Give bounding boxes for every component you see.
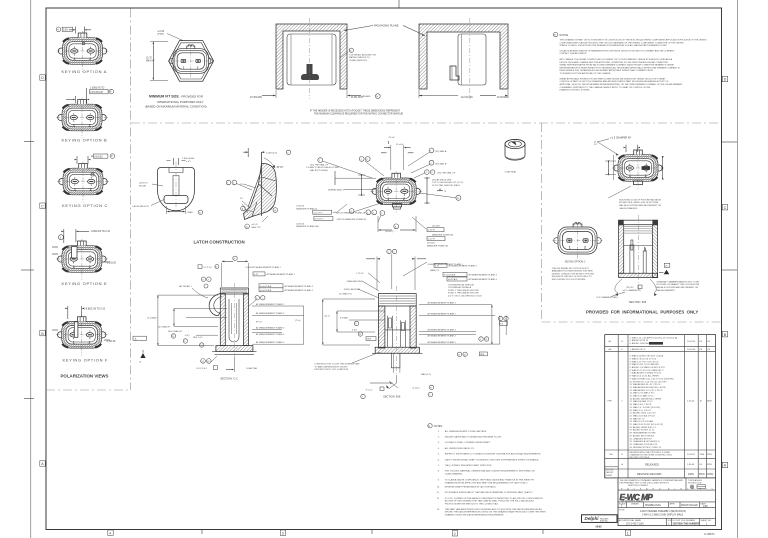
svg-text:THIS 2W SERIAL KEY OPTION IS N: THIS 2W SERIAL KEY OPTION IS NOT xyxy=(552,267,590,270)
right section S3 xyxy=(619,215,658,290)
svg-text:⊕ ⌀0.25 A B: ⊕ ⌀0.25 A B xyxy=(444,274,456,277)
svg-text:⊕ ⌀0.25 A B: ⊕ ⌀0.25 A B xyxy=(260,289,272,292)
svg-text:0.2 X 45° CORNER ON THE MATING: 0.2 X 45° CORNER ON THE MATING COMPONENT… xyxy=(445,497,543,500)
central right vertical dim xyxy=(424,177,447,204)
svg-text:REQUESTS THIS KEY OPTION USE 4: REQUESTS THIS KEY OPTION USE 4 TO xyxy=(552,276,592,278)
svg-text:6P°±2°: 6P°±2° xyxy=(256,322,263,324)
svg-text:14. WAS 12.70 MAX 1 PLC: 14. WAS 12.70 MAX 1 PLC xyxy=(630,392,656,395)
svg-text:AT MEASUREMENT PLANE 4: AT MEASUREMENT PLANE 4 xyxy=(285,289,314,292)
svg-text:1.0 MAX TO BE FLUSH A 0.25 MM: 1.0 MAX TO BE FLUSH A 0.25 MM xyxy=(306,166,339,169)
rev table column lines xyxy=(618,335,706,478)
title block row lines xyxy=(618,490,716,518)
svg-text:2 WAY (1.5 MM) CONN DISPLAY MA: 2 WAY (1.5 MM) CONN DISPLAY MALE xyxy=(642,513,684,516)
svg-text:EITHER SIDE. GATE LUGS OF FIX: EITHER SIDE. GATE LUGS OF FIXTURE xyxy=(619,201,658,204)
svg-text:MIN AND: MIN AND xyxy=(362,95,371,98)
pins xyxy=(630,245,634,273)
svg-text:6. WAS 15.75 9 PLCS 2 WAS KEY: 6. WAS 15.75 9 PLCS 2 WAS KEY C xyxy=(630,369,665,372)
svg-text:0.15 TP 2: 0.15 TP 2 xyxy=(315,219,325,221)
svg-text:REVISION RECORD: REVISION RECORD xyxy=(637,472,661,476)
svg-text:9. WAS CONTACT (1), 2.03 2 PLC: 9. WAS CONTACT (1), 2.03 2 PLCS, DELETED xyxy=(630,377,675,380)
svg-text:DO NOT FILE NUMBER: DO NOT FILE NUMBER xyxy=(673,520,696,522)
svg-text:P A C K A R D E L E C T R I C: P A C K A R D E L E C T R I C xyxy=(621,487,715,490)
dashed separator vertical right region xyxy=(541,123,543,322)
svg-text:AT MEASUREMENT PLANE 4: AT MEASUREMENT PLANE 4 xyxy=(428,335,457,338)
svg-text:7.63 MIN ALL AROUND FOR: 7.63 MIN ALL AROUND FOR xyxy=(349,53,376,56)
keying B dims xyxy=(66,87,114,103)
svg-text:CHANGED NOTES SOME CONSTRUCTIO: CHANGED NOTES SOME CONSTRUCTION xyxy=(630,453,673,456)
svg-text:2X ⌀4°: 2X ⌀4° xyxy=(389,136,396,139)
svg-text:2X ⌀0.4: 2X ⌀0.4 xyxy=(396,143,404,146)
svg-text:10-10-07: 10-10-07 xyxy=(687,341,696,343)
svg-text:0.5°4° ON #1 CBL SHROUD CYCLE: 0.5°4° ON #1 CBL SHROUD CYCLE xyxy=(448,296,483,298)
svg-text:(XX) MAX A°: (XX) MAX A° xyxy=(435,150,447,153)
central leader circles left xyxy=(306,157,384,192)
svg-text:3. WAS 1.57 TYP, 2.03 2 PLCS: 3. WAS 1.57 TYP, 2.03 2 PLCS xyxy=(630,360,659,363)
svg-text:(TYP): (TYP) xyxy=(158,34,164,36)
svg-text:2-WAY HEADER ASSEMBLY (METRI-P: 2-WAY HEADER ASSEMBLY (METRI-PACK) xyxy=(640,510,686,513)
coax seal cylinder xyxy=(505,139,526,173)
svg-text:⌀ 0.36: ⌀ 0.36 xyxy=(158,30,165,33)
svg-text:MAY ALSO EXTEND AND BE PRESENT: MAY ALSO EXTEND AND BE PRESENT ON xyxy=(656,286,698,289)
section B-B body xyxy=(372,286,423,375)
right connector H2 xyxy=(553,223,603,259)
section B-B bottom xyxy=(314,352,433,399)
svg-text:(4.5 MAX): (4.5 MAX) xyxy=(147,316,157,319)
svg-text:DESIGN, CONSULT THE KEYING OPT: DESIGN, CONSULT THE KEYING OPTIONS xyxy=(552,273,595,275)
svg-text:GAUGE READERS: GAUGE READERS xyxy=(656,289,675,292)
svg-text:KEYING OPTION A: KEYING OPTION A xyxy=(62,69,108,74)
svg-text:10-10-05: 10-10-05 xyxy=(687,349,696,351)
svg-text:1.0000 AS TD 0.10: 1.0000 AS TD 0.10 xyxy=(91,230,111,233)
rev header row xyxy=(605,467,618,478)
svg-text:AT MEASUREMENT PLANE 3: AT MEASUREMENT PLANE 3 xyxy=(469,274,498,277)
svg-text:(9.6±0.2): (9.6±0.2) xyxy=(385,231,394,233)
svg-text:LATCH MIN HT R: LATCH MIN HT R xyxy=(133,205,150,208)
svg-text:KEYING OPTION C: KEYING OPTION C xyxy=(62,203,108,208)
svg-text:(XX) AT SHOULDER: (XX) AT SHOULDER xyxy=(432,178,452,181)
svg-text:3: 3 xyxy=(282,531,284,535)
keying option A connector xyxy=(57,31,109,72)
svg-text:GREAT APPROVALS FROM BOTH GMT: GREAT APPROVALS FROM BOTH GMT PARTS (GMW… xyxy=(560,77,666,80)
svg-text:1.0000-0.05: 1.0000-0.05 xyxy=(266,153,278,155)
svg-text:KEYING OPTION B: KEYING OPTION B xyxy=(62,137,108,142)
central leader circles right xyxy=(408,148,464,200)
svg-text:THE MINIMUM CLEARANCE REQUIRED: THE MINIMUM CLEARANCE REQUIRED FOR THE M… xyxy=(314,113,403,116)
svg-text:AH: AH xyxy=(609,348,612,351)
svg-text:(BASED ON MAXIMUM MATERIAL CON: (BASED ON MAXIMUM MATERIAL CONDITION) xyxy=(145,105,207,109)
S3 dims xyxy=(596,263,700,304)
svg-text:APPD: APPD xyxy=(670,502,676,505)
svg-text:⊕ ⌀0.25 A B: ⊕ ⌀0.25 A B xyxy=(260,285,272,288)
svg-text:31. CHANGED A 2F PLACES #5: 31. CHANGED A 2F PLACES #5 xyxy=(630,440,661,443)
svg-text:CHKD: CHKD xyxy=(707,474,714,476)
H1 dims xyxy=(594,136,664,210)
keying option B connector xyxy=(56,98,108,139)
section C-C right dims xyxy=(249,296,304,345)
svg-text:ART APPROVAL NAME: ART APPROVAL NAME xyxy=(619,519,642,522)
svg-text:MAY ALSO EXTEND AND BE PRESENT: MAY ALSO EXTEND AND BE PRESENT ON xyxy=(619,204,661,207)
svg-text:AT MEASUREMENT PLANE 1: AT MEASUREMENT PLANE 1 xyxy=(428,302,457,305)
svg-text:PROTECTS BEFORE SHROUD TO THE: PROTECTS BEFORE SHROUD TO THE CLOSED FLA… xyxy=(445,502,499,505)
svg-text:8. WAS 16.3, 16.51 ALL VIEWS: 8. WAS 16.3, 16.51 ALL VIEWS xyxy=(630,375,660,378)
svg-text:FRW: FRW xyxy=(707,464,712,466)
svg-text:(7.5±): (7.5±) xyxy=(295,320,301,322)
svg-text:15357090 THIS NUMBER: 15357090 THIS NUMBER xyxy=(673,523,700,525)
svg-text:1-30-98: 1-30-98 xyxy=(687,464,695,466)
svg-text:AC: AC xyxy=(609,340,612,343)
svg-text:ANY CHANGE TO A USCAR CONTROLL: ANY CHANGE TO A USCAR CONTROLLED DOCUMEN… xyxy=(560,58,673,61)
svg-text:2. WAS 17.8 (15.75) 2 PLCS: 2. WAS 17.8 (15.75) 2 PLCS xyxy=(630,357,657,360)
top zone tick xyxy=(398,0,400,8)
latch arm on section C-C xyxy=(209,294,220,316)
svg-text:APPROVAL. FILES OF THE WITHDRA: APPROVAL. FILES OF THE WITHDRAWN REPRESE… xyxy=(560,83,683,86)
svg-text:THIRD ANGLE: THIRD ANGLE xyxy=(688,479,702,482)
svg-text:REPRESENTATIVE IS RESPONSIBLE: REPRESENTATIVE IS RESPONSIBLE FOR OBTAIN… xyxy=(560,66,681,69)
dashed separator horizontal right region bottom xyxy=(542,321,722,323)
svg-text:1. ADDED KEY F: 1. ADDED KEY F xyxy=(630,348,647,351)
svg-text:-A-: -A- xyxy=(134,338,137,341)
svg-text:DRAWN: DRAWN xyxy=(631,502,639,505)
svg-text:AT MEASUREMENT PLANE 4: AT MEASUREMENT PLANE 4 xyxy=(469,278,498,281)
zone label D right xyxy=(722,76,727,81)
delphi logo box xyxy=(582,515,618,529)
svg-text:MAY BOTTOM A-B: MAY BOTTOM A-B xyxy=(310,169,328,172)
svg-text:16.00 MIN: 16.00 MIN xyxy=(497,97,508,99)
svg-text:AT MEASUREMENT PLANE 2: AT MEASUREMENT PLANE 2 xyxy=(256,312,285,315)
svg-text:AVAILABLE FOR NEW DESIGN. FOR: AVAILABLE FOR NEW DESIGN. FOR NEW xyxy=(552,270,593,273)
svg-text:BULK MAX HT: BULK MAX HT xyxy=(168,330,183,333)
svg-text:BULGE: BULGE xyxy=(139,185,147,187)
svg-text:0.15 TP: 0.15 TP xyxy=(428,230,436,232)
svg-text:TITLE: TITLE xyxy=(619,509,625,511)
svg-text:THIS PART HAS BEEN PREVIOUSLY: THIS PART HAS BEEN PREVIOUSLY DESIGNED A… xyxy=(445,508,543,511)
zone label C left xyxy=(40,203,45,208)
svg-text:30. CHANGED KEY E,F: 30. CHANGED KEY E,F xyxy=(630,437,653,440)
svg-text:THE INFORMATION CONTAINED HERE: THE INFORMATION CONTAINED HEREIN IS CONF… xyxy=(620,479,684,482)
svg-text:14X1/20: 14X1/20 xyxy=(432,226,441,228)
svg-text:POINT 1 THRU (M) AT GROOVE: POINT 1 THRU (M) AT GROOVE xyxy=(448,289,479,292)
svg-text:2. ADDED NOTE 13: 2. ADDED NOTE 13 xyxy=(630,339,650,342)
svg-text:TO SIGNING FOR THE APPROVAL OF: TO SIGNING FOR THE APPROVAL OF THE CHANG… xyxy=(560,72,612,75)
svg-text:4: 4 xyxy=(109,531,111,535)
svg-text:CLASS DRAWING.: CLASS DRAWING. xyxy=(445,473,463,476)
rev table row lines xyxy=(605,346,716,469)
svg-text:PACKAGING PLANE: PACKAGING PLANE xyxy=(374,24,399,28)
svg-text:FRW: FRW xyxy=(707,454,712,456)
svg-text:SHOWN. THE DATUM REFERENCES LI: SHOWN. THE DATUM REFERENCES LISTED ON TH… xyxy=(445,511,546,514)
svg-text:B-1,2,3,4,5: B-1,2,3,4,5 xyxy=(197,368,208,370)
keying F dims xyxy=(52,306,116,343)
svg-text:ALL DIMENSIONS APPLY IN MILLIM: ALL DIMENSIONS APPLY IN MILLIMETERS. xyxy=(445,430,487,433)
svg-text:RESPONSIBLE FOR OBTAINING ALL: RESPONSIBLE FOR OBTAINING ALL NECESSARY … xyxy=(560,69,654,72)
svg-text:C-1,2,3,4: C-1,2,3,4 xyxy=(203,267,212,269)
svg-text:AT MEASUREMENT PLANE 2: AT MEASUREMENT PLANE 2 xyxy=(428,313,457,316)
svg-text:AT MEASUREMENT PLANE 2: AT MEASUREMENT PLANE 2 xyxy=(267,273,296,276)
svg-text:(XX) THE SEAL OF: (XX) THE SEAL OF xyxy=(310,163,329,166)
svg-text:CONTRA HEX DETAIL A: CONTRA HEX DETAIL A xyxy=(448,286,472,289)
pocket caption xyxy=(310,109,403,115)
dashed separator horizontal top band xyxy=(131,122,721,124)
zone label B left xyxy=(40,330,45,335)
svg-text:0.10±.05: 0.10±.05 xyxy=(107,263,117,265)
hex dims xyxy=(146,30,183,80)
svg-text:REFER TO SUPPLEMENT 12 CONNECT: REFER TO SUPPLEMENT 12 CONNECTOR DESIGN … xyxy=(445,453,542,456)
svg-text:CLEAR (SHROUD): CLEAR (SHROUD) xyxy=(349,59,367,62)
svg-text:18. WAS 4 SQ, 2 PLCS: 18. WAS 4 SQ, 2 PLCS xyxy=(630,403,652,406)
svg-text:NOTES:: NOTES: xyxy=(434,426,443,428)
svg-text:AT MEASUREMENT PLANE 2: AT MEASUREMENT PLANE 2 xyxy=(449,265,478,268)
svg-text:C-45671: C-45671 xyxy=(704,532,715,536)
svg-text:GAUGES GAUGE AND TOLERANCING P: GAUGES GAUGE AND TOLERANCING PER ASME Y1… xyxy=(445,436,502,439)
svg-text:21. ADDED (4.90) 1.05 2.54: 21. ADDED (4.90) 1.05 2.54 xyxy=(630,412,657,415)
svg-text:DRAWING CONTROL SYSTEM.: DRAWING CONTROL SYSTEM. xyxy=(560,89,591,92)
svg-text:SHEMELUNAS: SHEMELUNAS xyxy=(645,504,661,507)
svg-text:23. WAS 30° ±2°: 23. WAS 30° ±2° xyxy=(630,417,646,420)
svg-text:DEVICE ON BOARD CHANGE MUST BE: DEVICE ON BOARD CHANGE MUST BE APPROVED,… xyxy=(560,61,669,64)
svg-text:4. WAS 10.351 TO 8.3 MIN KEY: 4. WAS 10.351 TO 8.3 MIN KEY xyxy=(630,363,660,366)
svg-text:MEASURE PLANE (3A): MEASURE PLANE (3A) xyxy=(296,225,318,228)
svg-text:0.05: 0.05 xyxy=(63,29,68,31)
svg-text:M: M xyxy=(554,35,556,37)
svg-text:SCALE: SCALE xyxy=(619,502,626,505)
svg-text:1.05AX TAB: 1.05AX TAB xyxy=(246,367,258,370)
svg-text:4.0000 AT MEASUREMENT PLANE 1: 4.0000 AT MEASUREMENT PLANE 1 xyxy=(246,266,282,269)
section B-B top dims xyxy=(339,249,498,298)
svg-text:⌀0.5 R: ⌀0.5 R xyxy=(252,223,259,226)
svg-text:M: M xyxy=(428,426,430,428)
svg-text:KEYING OPTION C: KEYING OPTION C xyxy=(565,261,586,263)
svg-text:AT MEASUREMENT PLANE 3: AT MEASUREMENT PLANE 3 xyxy=(285,285,314,288)
svg-text:SECTION B-B: SECTION B-B xyxy=(629,300,647,304)
svg-text:POINT 2 THRU (M) AT GROOVE: POINT 2 THRU (M) AT GROOVE xyxy=(448,292,479,295)
svg-text:20. WAS (7.5), 1.05 2X: 20. WAS (7.5), 1.05 2X xyxy=(630,409,652,412)
svg-text:SHEET NO: SHEET NO xyxy=(701,520,712,522)
svg-text:COMPONENT APPLICATION PROCESS,: COMPONENT APPLICATION PROCESS, THE CIRCU… xyxy=(560,41,685,44)
svg-text:32. CHANGED TITLE BLOCK: 32. CHANGED TITLE BLOCK xyxy=(630,443,658,446)
svg-text:PROPRIETARY. NOT TO BE DISCLOS: PROPRIETARY. NOT TO BE DISCLOSED WITHOUT xyxy=(620,481,670,484)
svg-text:RECORD OPTION A: RECORD OPTION A xyxy=(630,456,650,459)
svg-text:0.10±.05: 0.10±.05 xyxy=(107,341,117,343)
svg-text:AT MEASUREMENT PLANE 1: AT MEASUREMENT PLANE 1 xyxy=(256,303,285,306)
section B-B left dims xyxy=(322,299,385,345)
svg-text:STATES COUNCIL FOR AUTOMOTIVE: STATES COUNCIL FOR AUTOMOTIVE RESEARCH U… xyxy=(560,44,668,47)
keying option C connector xyxy=(57,162,109,203)
right pocket section xyxy=(419,18,508,99)
svg-text:1.5X TO SHOULDER 0.25 (1.5 X): 1.5X TO SHOULDER 0.25 (1.5 X) xyxy=(432,182,464,184)
left pocket section xyxy=(250,18,380,99)
ramp dims xyxy=(247,148,249,157)
svg-text:CAVITY SHOWN DETAIL DRAFT ON D: CAVITY SHOWN DETAIL DRAFT ON DESIGN CONT… xyxy=(445,458,540,461)
zone label 1 bottom xyxy=(625,530,630,535)
svg-text:RELEASED: RELEASED xyxy=(645,462,659,466)
svg-text:+3.1±0.2: +3.1±0.2 xyxy=(412,387,421,389)
bottom zone ticks xyxy=(201,530,203,535)
scale row xyxy=(627,502,700,508)
svg-text:MEASURE PLANE 3B: MEASURE PLANE 3B xyxy=(427,244,448,247)
section B-B right dims xyxy=(419,302,508,357)
svg-text:POLARIZATION VIEWS: POLARIZATION VIEWS xyxy=(61,374,109,379)
svg-text:MATING SHROUD TO: MATING SHROUD TO xyxy=(349,56,370,59)
svg-text:REF: REF xyxy=(367,339,372,341)
zone label 3 bottom xyxy=(280,530,285,535)
svg-text:CONTRA HEX AT SHROUD: CONTRA HEX AT SHROUD xyxy=(448,283,475,286)
right zone ticks xyxy=(722,141,737,143)
H2 caption and note xyxy=(552,261,595,281)
svg-text:DATE: DATE xyxy=(688,473,694,476)
paper edge right xyxy=(737,0,739,538)
svg-text:15. WAS 14.5 MAX 1 PLC: 15. WAS 14.5 MAX 1 PLC xyxy=(630,395,655,398)
svg-text:(PRIME) GATE 3: (PRIME) GATE 3 xyxy=(328,189,345,192)
svg-text:NOTICE: NOTICE xyxy=(606,469,614,471)
zone label D left xyxy=(40,75,45,80)
svg-text:AT MEASUREMENT PLANE 3: AT MEASUREMENT PLANE 3 xyxy=(256,326,285,329)
svg-text:⌀0.25 A B: ⌀0.25 A B xyxy=(448,278,458,281)
keying A dims xyxy=(56,27,91,34)
svg-text:19. WAS 1.3 - 0.6 BSC [0.8 0.0: 19. WAS 1.3 - 0.6 BSC [0.8 0.05] xyxy=(630,406,661,409)
central right boxed labels xyxy=(412,217,453,247)
keying option F connector xyxy=(56,315,108,356)
svg-text:AT MEASUREMENT PLANE 5: AT MEASUREMENT PLANE 5 xyxy=(428,341,457,344)
svg-text:1/98: 1/98 xyxy=(703,506,708,508)
central left vertical dim xyxy=(358,174,365,196)
svg-text:ISSUE: ISSUE xyxy=(606,475,613,477)
hex shroud view xyxy=(168,41,214,82)
svg-text:ACCESS OF GM LICENSED TEST TAB: ACCESS OF GM LICENSED TEST TAB 2-WAY AT … xyxy=(445,500,535,503)
latch ramp detail xyxy=(226,148,290,229)
svg-text:24. WAS (1.5) 0.5 R MAX: 24. WAS (1.5) 0.5 R MAX xyxy=(630,420,654,423)
left pocket dims xyxy=(275,90,277,98)
svg-text:(XX) MAX B°: (XX) MAX B° xyxy=(435,162,447,165)
central dims top xyxy=(381,136,414,170)
svg-text:TO CLAIM A GAUGE COMPLIANCE, T: TO CLAIM A GAUGE COMPLIANCE, TEETH AND G… xyxy=(445,479,535,482)
svg-text:COAX SEAL: COAX SEAL xyxy=(505,171,518,174)
svg-text:MG: MG xyxy=(610,454,614,456)
svg-text:NOTCHED OR HEAVILY THE LUG REG: NOTCHED OR HEAVILY THE LUG REGIONS xyxy=(656,283,699,286)
svg-text:IF THE HEADER IS RECESSED INTO: IF THE HEADER IS RECESSED INTO A POCKET,… xyxy=(310,109,401,112)
svg-text:CONSTRUCTION COLOR THIS SURFAC: CONSTRUCTION COLOR THIS SURFACE MAY xyxy=(314,363,360,366)
svg-text:(6.3 WAX TD): (6.3 WAX TD) xyxy=(339,293,352,296)
svg-text:(12.7): (12.7) xyxy=(324,316,330,318)
svg-text:KEYING OPTION F: KEYING OPTION F xyxy=(63,358,109,363)
svg-text:14.5 MAX HT: 14.5 MAX HT xyxy=(158,325,171,328)
svg-text:CONTROL IS PART OF GM TITLE DR: CONTROL IS PART OF GM TITLE DRAWING AND … xyxy=(560,80,669,83)
svg-text:14X1/2D MEASURE PLANE 2A: 14X1/2D MEASURE PLANE 2A xyxy=(336,212,366,215)
zone label C right xyxy=(722,205,727,210)
bottom row xyxy=(667,518,700,525)
svg-text:27. ADDED NOTES 11, 12: 27. ADDED NOTES 11, 12 xyxy=(630,429,655,432)
svg-text:4 SQ: 4 SQ xyxy=(185,335,190,337)
svg-text:CONTACT CAN BE LIMITED.: CONTACT CAN BE LIMITED. xyxy=(560,52,588,55)
svg-text:4 BULL AROUND: 4 BULL AROUND xyxy=(344,288,361,291)
svg-text:0.25 MAX R ON ALL CORNERS UNDE: 0.25 MAX R ON ALL CORNERS UNDER DRAFT. xyxy=(445,441,491,444)
svg-text:8.6 MAX: 8.6 MAX xyxy=(340,317,349,320)
svg-text:USCAR IS AN ASSOCIATION OF MEM: USCAR IS AN ASSOCIATION OF MEMBERS FROM … xyxy=(560,49,675,52)
svg-text:14X1/20: 14X1/20 xyxy=(296,223,305,225)
svg-text:1.75°/4°: 1.75°/4° xyxy=(356,273,364,275)
svg-text:PROVIDED FOR INFORMATIONAL: PROVIDED FOR INFORMATIONAL PURPOSES ONLY xyxy=(586,309,698,314)
svg-text:10.351 MIN: 10.351 MIN xyxy=(250,97,262,99)
T latch in left pocket xyxy=(301,64,319,80)
svg-text:(4.90) TO: (4.90) TO xyxy=(139,183,148,185)
svg-text:REF: REF xyxy=(480,354,485,356)
svg-text:13.: 13. xyxy=(437,509,440,511)
svg-text:GREAT REPRESENTATIVE FROM EACH: GREAT REPRESENTATIVE FROM EACH USING MEM… xyxy=(560,64,675,67)
svg-text:WAS (9.4): WAS (9.4) xyxy=(421,373,431,376)
svg-text:10.: 10. xyxy=(437,487,440,489)
left pocket clearance note xyxy=(340,48,376,62)
svg-text:33. REVISED NOTES 1 THRU 13: 33. REVISED NOTES 1 THRU 13 xyxy=(630,447,662,449)
svg-text:0.8 0.05: 0.8 0.05 xyxy=(94,156,103,158)
svg-text:10. MOVED 3X, 2.03 2 PLCS, OLD: 10. MOVED 3X, 2.03 2 PLCS, OLD KEY xyxy=(630,381,668,383)
svg-text:Delphi: Delphi xyxy=(585,516,600,521)
svg-text:NOTICE: NOTICE xyxy=(560,35,569,37)
svg-text:14X1/2D MEASURE PLANE 2B: 14X1/2D MEASURE PLANE 2B xyxy=(337,218,367,221)
svg-text:16. ADDED DATUM B ALL VIEWS: 16. ADDED DATUM B ALL VIEWS xyxy=(630,397,662,400)
svg-text:14X1/20: 14X1/20 xyxy=(296,206,305,208)
svg-text:4 SQ: 4 SQ xyxy=(352,329,357,331)
section C-C bottom labels xyxy=(197,356,258,380)
svg-text:WRITTEN CONSENT.: WRITTEN CONSENT. xyxy=(628,485,649,487)
svg-text:OLD CHAMBER THRU: OLD CHAMBER THRU xyxy=(596,296,618,299)
svg-text:DRAWING USING THE DATUM REFERE: DRAWING USING THE DATUM REFERENCE REQUIR… xyxy=(445,514,505,517)
svg-text:29. ADDED SECTION B-B: 29. ADDED SECTION B-B xyxy=(630,434,655,437)
svg-text:ELECTRIC: ELECTRIC xyxy=(600,520,609,522)
svg-text:INTERNATIONAL PURPOSES ONLY: INTERNATIONAL PURPOSES ONLY xyxy=(157,100,204,104)
svg-text:FOR TOOLING, MATERIAL, DIMENSI: FOR TOOLING, MATERIAL, DIMENSIONAL AND C… xyxy=(445,470,536,473)
svg-text:3. ADDED 15357090: 3. ADDED 15357090 xyxy=(630,342,650,345)
svg-text:TO BAR DIMENSIONS BY GROUP: TO BAR DIMENSIONS BY GROUP xyxy=(314,365,348,368)
svg-text:REDREW WITH ONE OPTIONS 1 & 5: REDREW WITH ONE OPTIONS 1 & 5 AND xyxy=(630,451,671,454)
svg-text:THIS DRAWING IN PART OR IN ITS: THIS DRAWING IN PART OR IN ITS ENTIRETY … xyxy=(560,39,708,42)
zone label A right xyxy=(722,462,727,467)
svg-text:28. RENUMBERED NOTES: 28. RENUMBERED NOTES xyxy=(630,433,657,435)
svg-text:TERMINAL CHAMBER/SEATING NOT T: TERMINAL CHAMBER/SEATING NOT TO BE xyxy=(656,280,699,283)
svg-text:1. WAS 1.52, 2.03 (REV D) [2.0: 1. WAS 1.52, 2.03 (REV D) [2.03] 1.52 2.… xyxy=(630,336,678,339)
svg-text:22. WAS ⌀0.25 A B 2 PLCS: 22. WAS ⌀0.25 A B 2 PLCS xyxy=(630,414,656,417)
svg-text:⌀ 1.5 CHAMFER 45°: ⌀ 1.5 CHAMFER 45° xyxy=(610,136,631,139)
latch bell view xyxy=(158,162,195,211)
svg-text:2X°: 2X° xyxy=(594,144,598,146)
latch bell dims xyxy=(133,157,203,215)
svg-text:GM 150 SERIES SEALED: GM 150 SERIES SEALED xyxy=(621,500,644,503)
svg-text:ALL UNSPECIFIED RADII 0.25.: ALL UNSPECIFIED RADII 0.25. xyxy=(445,447,475,450)
svg-text:M: M xyxy=(350,50,352,52)
svg-text:1: 1 xyxy=(627,531,629,535)
svg-text:: PROVIDED FOR: : PROVIDED FOR xyxy=(180,95,203,99)
svg-text:FRANK MILLER: FRANK MILLER xyxy=(681,504,698,507)
svg-text:PACKARD: PACKARD xyxy=(600,517,609,520)
svg-text:7. WAS ADDED 7.63 MIN 2 PLCS: 7. WAS ADDED 7.63 MIN 2 PLCS xyxy=(630,372,662,375)
svg-text:SECTION C-C: SECTION C-C xyxy=(220,376,238,380)
right connector H1 xyxy=(612,148,664,189)
svg-text:1. WAS 2.54 BSC KEY A, B 1.0 [: 1. WAS 2.54 BSC KEY A, B 1.0 [0.8] xyxy=(630,355,664,358)
section C-C left dims xyxy=(158,295,227,346)
svg-text:(MAX) TP: (MAX) TP xyxy=(430,269,440,272)
svg-text:F-7,1,2: F-7,1,2 xyxy=(366,389,373,391)
svg-text:AT MEASUREMENT PLANE 3: AT MEASUREMENT PLANE 3 xyxy=(428,328,457,331)
svg-text:5. ADDED 1.52 WAS 2.03 KEY E 4: 5. ADDED 1.52 WAS 2.03 KEY E 4 PL xyxy=(630,366,666,369)
svg-text:THE [ ] SYMBOL INDICATES DRAFT: THE [ ] SYMBOL INDICATES DRAFT DIRECTION… xyxy=(445,464,493,467)
svg-text:TWE: TWE xyxy=(700,454,705,456)
svg-text:12. WAS ADDED BULGE DIM + NOTE: 12. WAS ADDED BULGE DIM + NOTE xyxy=(630,386,667,389)
keying option E connector xyxy=(56,239,108,280)
svg-text:GAUGE READERS: GAUGE READERS xyxy=(619,207,638,210)
svg-text:COMPANIES, PERTINENT TO THE CH: COMPANIES, PERTINENT TO THE CHANGE CANNO… xyxy=(560,86,651,89)
svg-text:0.6 BSC AS TO 0.10: 0.6 BSC AS TO 0.10 xyxy=(84,308,106,311)
dashed separator horizontal keying bottom xyxy=(46,389,131,391)
section C-C body xyxy=(209,283,256,360)
keying E dims xyxy=(52,229,117,265)
